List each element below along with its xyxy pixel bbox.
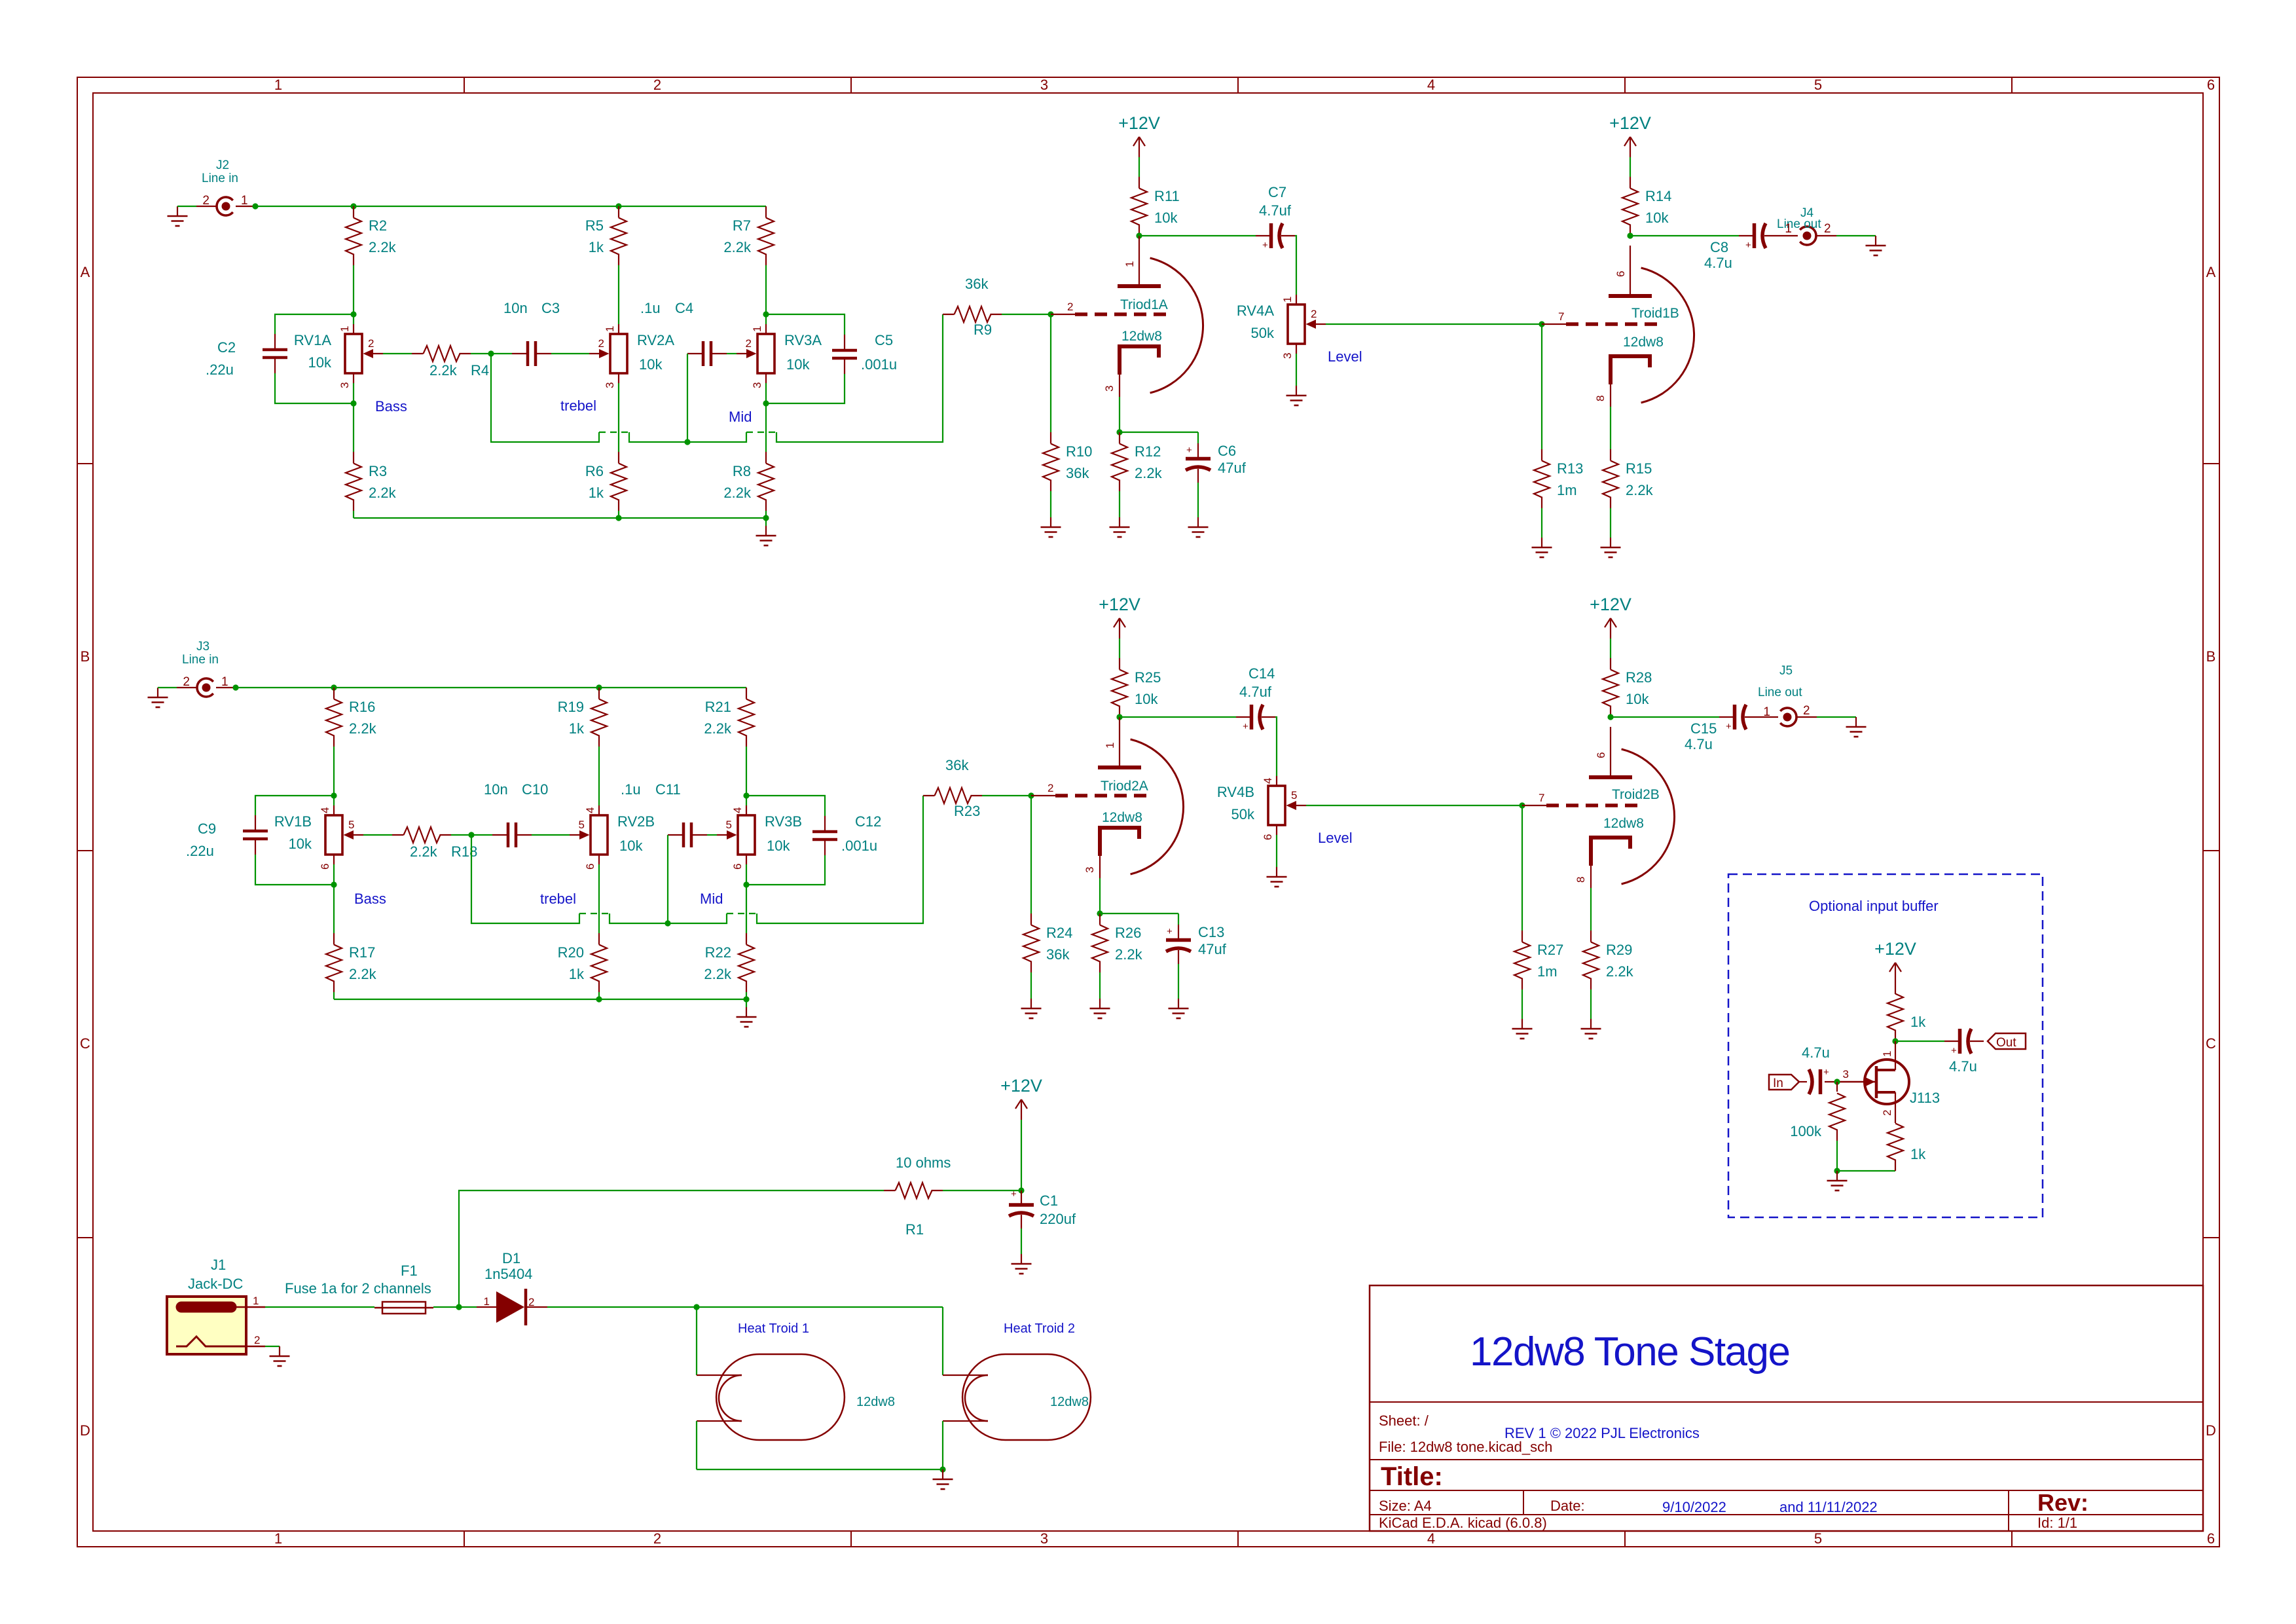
svg-text:1: 1 [274, 1530, 282, 1547]
svg-text:220uf: 220uf [1040, 1211, 1076, 1227]
svg-text:Fuse 1a for 2 channels: Fuse 1a for 2 channels [285, 1280, 431, 1297]
triode Triod2A [1031, 717, 1184, 878]
wire bridge [727, 913, 757, 914]
wire [1522, 805, 1523, 931]
wire [765, 383, 767, 452]
svg-text:Rev:: Rev: [2037, 1489, 2088, 1516]
resistor 100k [1790, 1082, 1845, 1141]
resistor R5 [585, 206, 627, 265]
svg-text:RV1A: RV1A [294, 332, 331, 348]
junction [743, 996, 749, 1002]
wire [746, 855, 825, 885]
svg-text:3: 3 [338, 382, 351, 388]
junction [1834, 1168, 1840, 1173]
svg-text:C9: C9 [198, 821, 216, 837]
resistor R28 [1603, 658, 1652, 717]
power +12V at R11 [1118, 113, 1160, 157]
svg-text:R2: R2 [369, 217, 387, 234]
svg-text:2: 2 [598, 337, 604, 350]
svg-text:2.2k: 2.2k [349, 720, 377, 737]
svg-text:R27: R27 [1537, 942, 1563, 958]
junction [596, 684, 602, 690]
svg-text:7: 7 [1558, 310, 1564, 323]
wire [598, 992, 600, 999]
resistor R26 [1092, 913, 1143, 972]
svg-text:Troid1B: Troid1B [1631, 306, 1679, 321]
wire [598, 747, 600, 805]
wire [255, 206, 766, 207]
svg-text:Out: Out [1996, 1036, 2016, 1050]
svg-text:3: 3 [1103, 386, 1116, 392]
svg-text:R26: R26 [1115, 925, 1141, 941]
border column tick [2011, 77, 2013, 93]
wire [333, 864, 335, 933]
wire [1276, 835, 1277, 867]
svg-text:R21: R21 [705, 699, 731, 715]
wire [236, 687, 746, 688]
svg-text:Jack-DC: Jack-DC [188, 1276, 243, 1292]
wire [765, 511, 767, 518]
wire [765, 518, 767, 526]
svg-text:2.2k: 2.2k [410, 843, 438, 860]
wire [177, 206, 196, 207]
svg-text:D1: D1 [502, 1250, 520, 1266]
svg-text:J5: J5 [1779, 664, 1793, 678]
svg-text:10 ohms: 10 ohms [896, 1154, 951, 1171]
svg-text:9/10/2022: 9/10/2022 [1662, 1499, 1726, 1515]
ground at R26 [1090, 999, 1110, 1018]
junction [1116, 429, 1122, 435]
wire [1306, 805, 1522, 806]
wire [1817, 716, 1856, 718]
svg-text:5: 5 [1814, 1530, 1822, 1547]
svg-text:Heat Troid 2: Heat Troid 2 [1004, 1321, 1075, 1336]
svg-text:5: 5 [1814, 77, 1822, 93]
svg-text:4: 4 [319, 807, 331, 813]
ground at R13 [1532, 538, 1552, 557]
svg-text:10n: 10n [503, 300, 528, 316]
svg-text:RV2A: RV2A [637, 332, 674, 348]
svg-text:+: + [1186, 445, 1192, 456]
wire [1050, 491, 1051, 517]
svg-text:2: 2 [1803, 704, 1810, 718]
power +12V at R14 [1609, 113, 1651, 157]
junction [743, 881, 749, 887]
wire [1590, 888, 1592, 931]
svg-text:2.2k: 2.2k [369, 239, 397, 255]
svg-text:1: 1 [1785, 222, 1792, 236]
triode Troid1B [1542, 246, 1694, 407]
wire [766, 314, 845, 335]
svg-text:1k: 1k [1910, 1146, 1926, 1162]
svg-text:3: 3 [1281, 353, 1294, 359]
svg-text:R4: R4 [471, 362, 489, 378]
wire [1610, 407, 1611, 449]
wire [1836, 235, 1876, 236]
ground at RV4B [1267, 867, 1287, 887]
capacitor C3 [512, 341, 551, 366]
junction [615, 515, 621, 521]
svg-text:4: 4 [731, 807, 744, 813]
wire [1197, 432, 1199, 443]
svg-text:C13: C13 [1198, 924, 1224, 940]
svg-text:+: + [1262, 240, 1268, 251]
wire [776, 314, 943, 442]
svg-text:12dw8: 12dw8 [1121, 329, 1162, 344]
capacitor C14 [1236, 705, 1275, 732]
svg-text:12dw8: 12dw8 [1623, 335, 1664, 350]
svg-text:1: 1 [274, 77, 282, 93]
junction [252, 203, 258, 209]
svg-text:Date:: Date: [1550, 1498, 1585, 1514]
svg-text:R18: R18 [451, 843, 477, 860]
svg-text:C15: C15 [1690, 720, 1717, 737]
wire [433, 1306, 459, 1308]
wire [1030, 972, 1032, 999]
wire [363, 834, 392, 836]
svg-text:C1: C1 [1040, 1192, 1058, 1209]
svg-text:2.2k: 2.2k [1115, 946, 1143, 963]
svg-text:4.7u: 4.7u [1704, 255, 1732, 271]
resistor 1k source [1887, 1112, 1926, 1171]
svg-text:J1: J1 [211, 1257, 226, 1273]
svg-text:12dw8: 12dw8 [1102, 810, 1142, 825]
border column tick [464, 77, 465, 93]
svg-text:6: 6 [731, 864, 744, 870]
svg-text:R24: R24 [1046, 925, 1072, 941]
connector J1 Jack-DC [167, 1257, 265, 1354]
wire [1100, 913, 1178, 914]
svg-text:2: 2 [1881, 1110, 1893, 1116]
resistor R16 [326, 688, 377, 747]
wire [696, 1421, 697, 1469]
svg-text:R12: R12 [1135, 443, 1161, 460]
capacitor C13 [1166, 925, 1191, 964]
ground at R10 [1041, 517, 1061, 537]
svg-text:In: In [1773, 1077, 1783, 1090]
wire [1611, 716, 1719, 718]
resistor R10 [1043, 432, 1092, 491]
svg-text:R10: R10 [1066, 443, 1092, 460]
svg-text:1: 1 [338, 326, 351, 332]
wire [1295, 236, 1296, 295]
svg-text:+: + [1243, 721, 1248, 732]
potentiometer RV2A [589, 324, 674, 388]
border row tick [77, 1237, 93, 1238]
svg-text:6: 6 [2207, 1530, 2215, 1547]
svg-text:RV3B: RV3B [765, 813, 802, 830]
wire [1836, 1141, 1838, 1171]
wire [1139, 157, 1140, 177]
junction [456, 1304, 462, 1310]
wire [943, 1190, 1021, 1191]
wire [333, 747, 335, 805]
svg-text:1: 1 [604, 326, 616, 332]
capacitor C1 [1009, 1189, 1076, 1228]
svg-text:3: 3 [604, 382, 616, 388]
svg-text:4: 4 [1427, 1530, 1435, 1547]
svg-text:8: 8 [1575, 877, 1587, 883]
buffer box outline [1728, 874, 2043, 1217]
wire [1120, 432, 1198, 433]
junction [763, 515, 769, 521]
svg-text:R8: R8 [733, 463, 751, 479]
wire [1119, 397, 1120, 432]
resistor R24 [1023, 913, 1072, 972]
svg-text:R14: R14 [1645, 188, 1671, 204]
wire [333, 992, 335, 999]
svg-text:10k: 10k [786, 356, 810, 373]
svg-text:36k: 36k [1046, 946, 1070, 963]
wire [275, 314, 354, 334]
svg-text:R5: R5 [585, 217, 604, 234]
svg-text:A: A [2206, 264, 2216, 280]
junction [1627, 232, 1633, 238]
wire bridge [579, 913, 610, 914]
wire [459, 1306, 477, 1308]
svg-text:4: 4 [1427, 77, 1435, 93]
svg-text:Mid: Mid [700, 891, 723, 907]
junction [1136, 232, 1142, 238]
wire [551, 353, 589, 354]
svg-text:1: 1 [1281, 297, 1294, 303]
svg-text:C10: C10 [522, 781, 548, 798]
wire [746, 796, 825, 816]
resistor R25 [1112, 658, 1161, 717]
svg-text:5: 5 [726, 819, 732, 831]
resistor R1 body [884, 1183, 943, 1198]
svg-text:2.2k: 2.2k [349, 966, 377, 982]
heater Heat Troid 1 [697, 1354, 895, 1440]
svg-text:1m: 1m [1557, 482, 1577, 498]
svg-text:J2: J2 [216, 158, 229, 172]
svg-text:2: 2 [254, 1334, 260, 1346]
svg-text:Level: Level [1318, 830, 1353, 846]
svg-text:3: 3 [751, 382, 763, 388]
svg-text:2: 2 [653, 77, 661, 93]
svg-text:+12V: +12V [1874, 939, 1916, 959]
svg-text:4.7u: 4.7u [1802, 1044, 1830, 1061]
svg-text:Heat Troid 1: Heat Troid 1 [738, 1321, 809, 1336]
svg-text:1: 1 [1763, 705, 1770, 719]
potentiometer RV3B [717, 805, 802, 870]
svg-text:100k: 100k [1790, 1123, 1822, 1139]
svg-text:1: 1 [1881, 1051, 1893, 1057]
svg-text:RV4A: RV4A [1237, 303, 1274, 319]
ground at R29 [1581, 1019, 1601, 1039]
potentiometer RV4B [1217, 776, 1306, 840]
border column tick [1624, 77, 1626, 93]
capacitor C4 [687, 341, 727, 366]
junction [488, 350, 494, 356]
svg-text:R25: R25 [1135, 669, 1161, 686]
resistor R2 [346, 206, 397, 265]
junction [350, 311, 356, 317]
svg-text:KiCad E.D.A. kicad (6.0.8): KiCad E.D.A. kicad (6.0.8) [1379, 1515, 1547, 1531]
svg-text:trebel: trebel [560, 397, 596, 414]
diode D1 1n5404 [477, 1250, 547, 1325]
wire [696, 1307, 697, 1375]
svg-text:10k: 10k [1135, 691, 1158, 707]
svg-text:+: + [1167, 926, 1173, 937]
svg-text:2: 2 [202, 194, 210, 208]
potentiometer RV4A [1237, 295, 1326, 359]
svg-text:J3: J3 [196, 640, 210, 654]
svg-text:R23: R23 [954, 803, 980, 819]
wire [766, 374, 845, 403]
svg-text:C3: C3 [541, 300, 560, 316]
svg-text:Triod1A: Triod1A [1120, 297, 1168, 312]
svg-text:A: A [81, 264, 90, 280]
wire [334, 999, 746, 1000]
svg-text:R7: R7 [733, 217, 751, 234]
connector J5 Line out [1758, 664, 1817, 726]
svg-text:D: D [80, 1422, 90, 1439]
svg-text:2: 2 [1311, 308, 1317, 320]
svg-text:2.2k: 2.2k [1626, 482, 1654, 498]
junction [615, 203, 621, 209]
svg-text:6: 6 [2207, 77, 2215, 93]
resistor R8 [723, 452, 774, 511]
wire [532, 834, 570, 836]
svg-text:12dw8: 12dw8 [1050, 1395, 1089, 1409]
svg-text:R9: R9 [974, 322, 992, 338]
capacitor C8 [1739, 223, 1778, 251]
svg-text:RV1B: RV1B [274, 813, 312, 830]
svg-text:2: 2 [1048, 782, 1053, 794]
border column tick [850, 77, 852, 93]
capacitor C11 [668, 822, 707, 847]
wire [265, 1346, 280, 1347]
capacitor 4.7u in [1799, 1067, 1837, 1094]
junction [1028, 792, 1034, 798]
svg-text:.001u: .001u [861, 356, 897, 373]
svg-text:+: + [1726, 721, 1732, 732]
svg-text:12dw8 Tone Stage: 12dw8 Tone Stage [1470, 1329, 1790, 1375]
wire [598, 864, 600, 933]
svg-text:+12V: +12V [1590, 595, 1631, 614]
svg-text:1: 1 [241, 194, 248, 208]
svg-text:4: 4 [584, 807, 596, 813]
potentiometer RV3A [737, 324, 822, 388]
svg-text:10k: 10k [289, 836, 312, 852]
svg-text:RV2B: RV2B [617, 813, 655, 830]
svg-text:B: B [81, 648, 90, 665]
svg-text:4: 4 [1262, 778, 1274, 784]
junction [1834, 1079, 1840, 1084]
svg-text:10k: 10k [1154, 210, 1178, 226]
wire [746, 864, 747, 933]
resistor R17 [326, 933, 377, 992]
wire [618, 265, 619, 324]
wire [1326, 323, 1542, 325]
wire [1178, 964, 1179, 999]
triode Triod1A [1051, 236, 1203, 397]
wire [1590, 989, 1592, 1019]
wire [1120, 716, 1236, 718]
wire [1837, 1170, 1895, 1172]
wire [1296, 354, 1297, 386]
wire [1021, 1228, 1022, 1254]
wire [471, 353, 512, 354]
svg-text:+12V: +12V [1099, 595, 1140, 614]
resistor R23 [923, 788, 982, 803]
svg-text:47uf: 47uf [1218, 460, 1247, 476]
wire [1021, 1120, 1022, 1190]
svg-text:.22u: .22u [186, 843, 214, 859]
svg-text:Optional input buffer: Optional input buffer [1809, 898, 1939, 914]
svg-text:2.2k: 2.2k [704, 966, 732, 982]
transistor J113 JFET [1837, 1041, 1940, 1116]
wire [354, 517, 766, 519]
wire [1139, 235, 1256, 236]
wire [687, 354, 688, 442]
global label In [1769, 1075, 1799, 1090]
wire [265, 1306, 374, 1308]
junction [1519, 802, 1525, 808]
svg-text:+12V: +12V [1000, 1076, 1042, 1096]
svg-text:36k: 36k [1066, 465, 1089, 481]
power +12V buffer [1874, 939, 1916, 983]
junction [468, 832, 474, 838]
svg-text:6: 6 [1262, 834, 1274, 840]
resistor R7 [723, 206, 774, 265]
wire [255, 855, 334, 885]
wire [1030, 796, 1032, 913]
svg-text:Sheet: /: Sheet: / [1379, 1412, 1429, 1429]
ground buffer [1827, 1171, 1848, 1190]
wire [618, 511, 619, 518]
svg-text:4.7u: 4.7u [1685, 736, 1713, 752]
wire [1197, 483, 1199, 517]
wire [746, 747, 747, 805]
svg-text:8: 8 [1594, 396, 1607, 401]
ground at R8 [756, 526, 776, 545]
svg-text:C14: C14 [1248, 665, 1275, 682]
ground at J3 [148, 688, 168, 707]
wire bridge [599, 432, 629, 433]
wire [451, 834, 492, 836]
wire [547, 1306, 943, 1308]
resistor R4 [412, 346, 471, 361]
connector J3 Line in [177, 640, 236, 697]
svg-text:2: 2 [1824, 222, 1831, 236]
svg-text:.1u: .1u [621, 781, 641, 798]
svg-text:2.2k: 2.2k [1135, 465, 1163, 481]
wire [922, 795, 924, 796]
svg-text:R15: R15 [1626, 460, 1652, 477]
resistor R18 [392, 827, 451, 843]
svg-text:Bass: Bass [375, 398, 407, 415]
wire [1178, 913, 1179, 925]
resistor R20 [558, 933, 607, 992]
wire [942, 314, 943, 315]
svg-text:1k: 1k [569, 966, 585, 982]
svg-text:2.2k: 2.2k [369, 485, 397, 501]
svg-text:1m: 1m [1537, 963, 1558, 980]
connector J2 Line in [196, 158, 255, 215]
svg-text:3: 3 [1040, 1530, 1048, 1547]
svg-text:6: 6 [1595, 752, 1607, 758]
svg-text:.1u: .1u [640, 300, 661, 316]
ground at R15 [1601, 538, 1621, 557]
wire [275, 373, 354, 403]
svg-text:10n: 10n [484, 781, 508, 798]
svg-text:2.2k: 2.2k [723, 485, 752, 501]
capacitor C5 [832, 335, 857, 374]
border column tick [1237, 77, 1239, 93]
ground at C1 [1011, 1254, 1032, 1274]
